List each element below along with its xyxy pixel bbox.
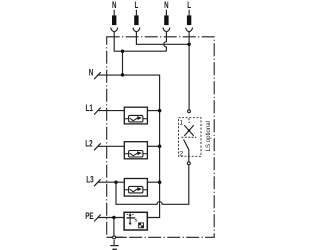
wire L2 to module bbox=[97, 145, 124, 147]
varistor module L2 bbox=[124, 142, 147, 159]
varistor module L1 bbox=[124, 107, 147, 124]
svg-text:L1: L1 bbox=[86, 103, 94, 114]
wire L3 to module bbox=[97, 181, 124, 183]
LS pin 2 circle bbox=[187, 162, 190, 165]
svg-text:1: 1 bbox=[179, 119, 183, 126]
earth terminal circle bbox=[113, 236, 116, 239]
disconnect slash L3 bbox=[94, 179, 101, 186]
wire N1 stem down and across to N2 stem bbox=[114, 32, 166, 52]
terminal L (top 4) bbox=[186, 0, 193, 32]
svg-text:L2: L2 bbox=[85, 138, 93, 149]
disconnect slash L1 bbox=[94, 108, 101, 115]
svg-text:PE: PE bbox=[85, 211, 94, 222]
svg-text:N: N bbox=[164, 0, 169, 10]
svg-text:N: N bbox=[89, 67, 94, 78]
wire PE drop to earth bbox=[113, 218, 115, 236]
varistor module L3 bbox=[124, 179, 147, 197]
wire LS return: L3 tap to LS pin2 with hop over N bus bbox=[116, 165, 189, 205]
svg-text:N: N bbox=[112, 0, 117, 10]
node junction L2-N bus bbox=[158, 145, 162, 149]
ground symbol bbox=[110, 240, 119, 250]
node junction N rail bbox=[121, 73, 125, 77]
wire N drop to N rail bbox=[122, 51, 124, 75]
wire L1 module to N bus bbox=[147, 110, 159, 112]
svg-text:L: L bbox=[135, 0, 139, 10]
node junction PE-earth bbox=[112, 216, 116, 220]
svg-text:LS optional: LS optional bbox=[205, 121, 212, 152]
wire N rail and N bus down to PE module bbox=[97, 75, 159, 217]
enclosure boundary (dash-dot) bbox=[107, 37, 215, 238]
wire L1 stem down and across to L2 stem bbox=[136, 32, 189, 45]
wire N2 stem with hop over L line bbox=[164, 32, 167, 52]
svg-text:L: L bbox=[187, 0, 191, 10]
wire L1 to module bbox=[97, 110, 124, 112]
terminal N (top 3) bbox=[163, 0, 170, 32]
wire L3 module to N bus bbox=[147, 181, 159, 183]
node junction L1-N bus bbox=[158, 109, 162, 113]
boundary solid segments at earth circle bbox=[107, 236, 126, 238]
node junction L3-N bus bbox=[158, 180, 162, 184]
terminal N (top 1) bbox=[111, 0, 118, 32]
breaker X symbol bbox=[184, 125, 193, 136]
disconnect slash PE bbox=[94, 215, 101, 222]
wire L2 stem down to LS circuit bbox=[188, 32, 190, 110]
LS pin 1 circle bbox=[188, 110, 191, 113]
LS optional breaker (dashed box) bbox=[179, 118, 213, 162]
wire L2 module to N bus bbox=[147, 145, 159, 147]
switch contact bbox=[184, 140, 189, 162]
node junction N stems bbox=[121, 49, 125, 53]
node junction L stems bbox=[187, 43, 191, 47]
terminal L (top 2) bbox=[133, 0, 140, 32]
wire PE to module bbox=[97, 217, 124, 219]
disconnect slash N bbox=[94, 72, 101, 79]
svg-text:L3: L3 bbox=[86, 174, 94, 185]
node junction L3 tap bbox=[114, 180, 118, 184]
disconnect slash L2 bbox=[94, 143, 101, 150]
breaker linkage dashes bbox=[188, 118, 190, 123]
svg-text:2: 2 bbox=[179, 150, 183, 157]
breaker bar (dashed) bbox=[181, 136, 196, 138]
spark gap module N-PE bbox=[124, 212, 147, 230]
